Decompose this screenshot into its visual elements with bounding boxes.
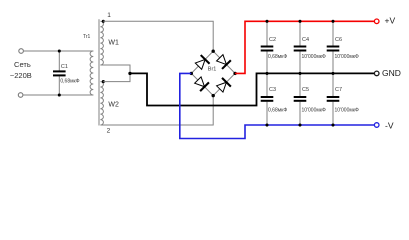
node +V rail C4 — [298, 20, 301, 23]
svg-text:Tr1: Tr1 — [83, 34, 91, 40]
svg-text:10'000мкФ: 10'000мкФ — [302, 107, 326, 113]
svg-text:1: 1 — [107, 12, 111, 19]
node -V rail C5 — [298, 123, 301, 126]
transformer winding W1 — [100, 21, 103, 65]
node +V rail C2 — [265, 20, 268, 23]
wire -V net (blue) — [180, 73, 375, 138]
transformer winding W2 — [100, 82, 103, 125]
node bridge bottom — [212, 94, 215, 97]
wire W1 bottom to center tap — [100, 65, 130, 82]
svg-text:2: 2 — [107, 128, 111, 135]
node C1 bottom — [58, 93, 61, 96]
svg-text:W1: W1 — [108, 40, 119, 47]
svg-text:C3: C3 — [269, 87, 276, 93]
diode D1 (left to top) — [194, 55, 209, 70]
svg-text:Br1: Br1 — [208, 66, 217, 72]
node GND rail C5 — [298, 72, 301, 75]
capacitor C7 — [332, 73, 334, 96]
svg-text:0,68мкФ: 0,68мкФ — [268, 107, 287, 113]
node bridge right — [233, 72, 236, 75]
capacitor C6 — [332, 21, 334, 45]
svg-text:10'000мкФ: 10'000мкФ — [335, 54, 359, 60]
svg-text:GND: GND — [382, 68, 401, 78]
wire AC bottom — [23, 94, 93, 96]
svg-text:C2: C2 — [269, 37, 276, 43]
svg-text:0,68мкФ: 0,68мкФ — [60, 79, 79, 85]
svg-text:C5: C5 — [302, 87, 309, 93]
svg-text:C4: C4 — [302, 37, 309, 43]
capacitor C1 — [58, 51, 60, 71]
svg-text:~220В: ~220В — [10, 71, 32, 80]
svg-text:10'000мкФ: 10'000мкФ — [335, 107, 359, 113]
node -V rail C7 — [331, 123, 334, 126]
node W1 start dot — [102, 20, 105, 23]
node W2 start dot — [102, 80, 105, 83]
node -V rail C3 — [265, 123, 268, 126]
svg-text:C1: C1 — [61, 64, 68, 70]
wire W2 bottom to bridge bottom — [100, 96, 213, 125]
wire GND net (thick) center tap to GND terminal — [130, 73, 374, 105]
svg-text:+V: +V — [385, 16, 396, 26]
svg-text:-V: -V — [385, 120, 394, 130]
wire +V net (red) — [235, 21, 374, 73]
svg-text:10'000мкФ: 10'000мкФ — [302, 54, 326, 60]
bridge rectifier Br1 frame — [191, 51, 235, 95]
terminal +V — [374, 19, 379, 24]
svg-text:C7: C7 — [335, 87, 342, 93]
terminal X2 bottom (AC input) — [18, 93, 23, 98]
wire AC top — [24, 50, 94, 52]
node bridge top — [212, 50, 215, 53]
terminal X1 top (AC input) — [19, 49, 24, 54]
capacitor C2 — [266, 21, 268, 45]
wire W1 top to bridge top — [103, 21, 213, 51]
transformer Tr1 primary winding — [90, 51, 93, 95]
node C1 top — [58, 49, 61, 52]
svg-text:0,68мкФ: 0,68мкФ — [268, 54, 287, 60]
transformer core — [98, 19, 100, 125]
node GND rail C3 — [265, 72, 268, 75]
capacitor C5 — [299, 73, 301, 96]
node center tap junction — [128, 72, 131, 75]
svg-text:Сеть: Сеть — [14, 60, 31, 69]
capacitor C4 — [299, 21, 301, 45]
terminal -V — [374, 123, 379, 128]
diode D4 (bottom to right) — [215, 78, 230, 93]
diode D2 (top to right) — [215, 53, 230, 68]
svg-text:W2: W2 — [108, 101, 119, 108]
terminal GND — [374, 71, 379, 76]
node GND rail C7 — [331, 72, 334, 75]
diode D3 (left to bottom) — [193, 76, 208, 91]
svg-text:C6: C6 — [335, 37, 342, 43]
node bridge left — [190, 72, 193, 75]
node +V rail C6 — [331, 20, 334, 23]
capacitor C3 — [266, 73, 268, 96]
